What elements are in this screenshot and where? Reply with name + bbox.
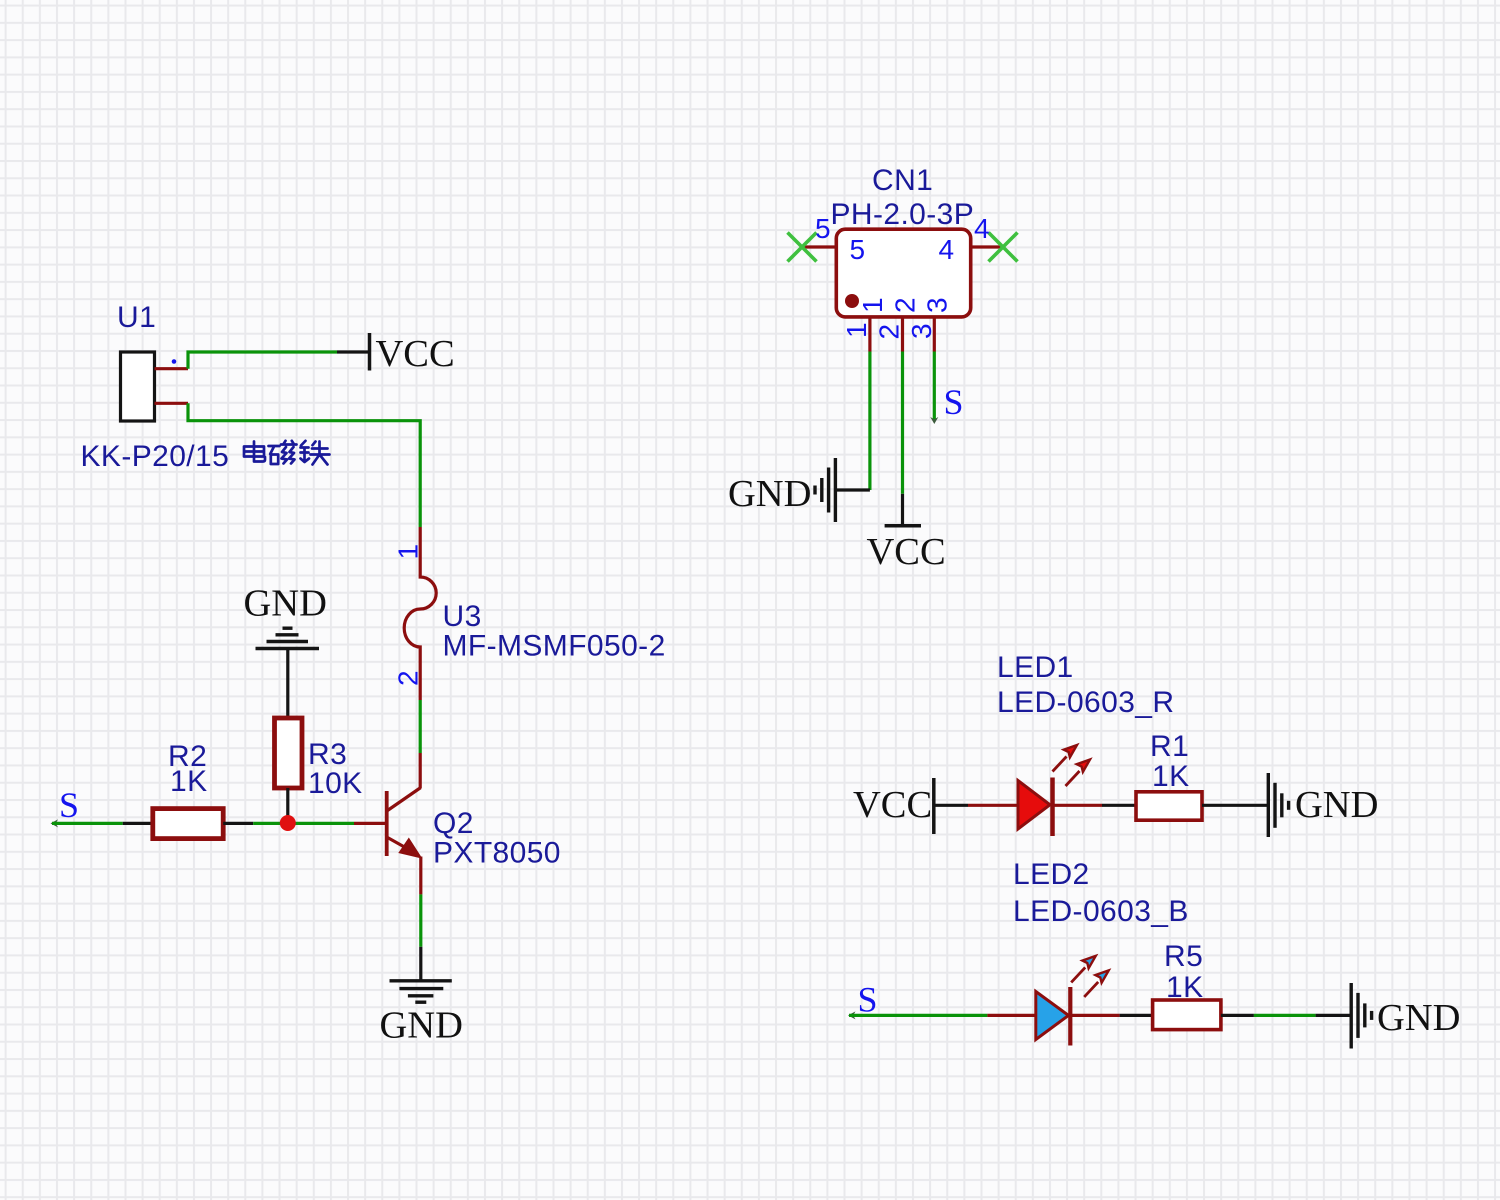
svg-text:LED2: LED2 [1013,858,1090,891]
net port S (left) [51,785,80,827]
CN1 pin 3 [933,317,936,352]
LED1 cathode pin [1053,804,1103,807]
svg-text:2: 2 [393,670,424,686]
wire fuse to collector [419,700,422,753]
wire R2 to junction to Q2 [253,822,354,825]
wire mid green [1254,1014,1316,1017]
wire CN1 pin2 to VCC [901,352,904,494]
wire S to LED2 [849,1014,987,1017]
wire CN1 pin3 to S [933,352,936,420]
Q2 emitter pin [419,857,422,895]
wire S to R2 [52,822,123,825]
svg-text:MF-MSMF050-2: MF-MSMF050-2 [443,630,666,663]
svg-text:Q2: Q2 [433,807,474,840]
U1 pin 1 [155,367,189,370]
svg-text:2: 2 [890,297,921,313]
svg-text:4: 4 [974,213,990,244]
svg-text:GND: GND [1295,784,1378,826]
LED1 labels [997,651,1174,719]
svg-text:1K: 1K [1166,971,1204,1004]
ground GND (above R3) [244,583,327,649]
svg-text:1K: 1K [1152,760,1190,793]
svg-text:S: S [944,382,964,422]
junction node dot [280,815,296,831]
wire VCC to LED1 [934,804,968,807]
no-connect X right [989,233,1018,262]
svg-text:VCC: VCC [867,531,946,573]
transistor Q2 PXT8050 [387,788,561,870]
CN1 pin 4 [971,245,1003,248]
svg-text:1: 1 [393,544,424,560]
fuse U3 MF-MSMF050-2 [404,527,665,700]
net port S (LED2) [848,980,878,1020]
svg-text:U3: U3 [443,600,482,633]
wire R5 to GND [1221,1014,1254,1017]
svg-text:5: 5 [850,234,866,265]
svg-text:R5: R5 [1164,940,1203,973]
svg-text:2: 2 [874,324,905,340]
ground GND (below Q2) [380,981,463,1047]
wire U1 pin2 to fuse U3 [188,403,420,527]
wire to GND5 [1316,1014,1351,1017]
svg-text:5: 5 [815,213,831,244]
电 [244,442,265,462]
U1 pin 1 dot [172,359,177,364]
power flag VCC (top left) [337,333,455,375]
磁 [269,441,297,464]
LED2 labels [1013,858,1189,928]
LED2 anode pin [987,1014,1035,1017]
CN1 pin 2 [901,317,904,352]
wire GND to R3 [286,649,289,719]
CN1 pin 1 [868,317,871,352]
LED1 anode pin [968,804,1018,807]
LED1 LED-0603_R [1018,745,1090,836]
LED2 LED-0603_B [1036,956,1109,1046]
svg-text:S: S [59,785,79,825]
svg-text:1: 1 [841,322,872,338]
svg-text:GND: GND [380,1005,463,1047]
svg-text:4: 4 [939,234,955,265]
svg-text:R1: R1 [1150,730,1189,763]
wire U1 pin1 to VCC [188,352,337,369]
ground GND (CN1) [728,458,870,522]
svg-text:GND: GND [728,473,811,515]
svg-text:PXT8050: PXT8050 [433,837,561,870]
CN1 pin-1 dot [845,294,859,308]
net port S (CN1) [930,382,963,424]
铁 [301,441,330,465]
resistor R3 10K [275,718,363,800]
svg-text:KK-P20/15: KK-P20/15 [81,440,230,473]
svg-text:10K: 10K [308,767,363,800]
svg-text:1: 1 [857,297,888,313]
R3 pin 2 [286,788,289,823]
CN1 pin 5 [801,245,836,248]
svg-text:3: 3 [906,323,937,339]
connector CN1 PH-2.0-3P [831,164,975,317]
GND stub [419,947,422,981]
wire LED2 to R5 [1120,1014,1153,1017]
U1 pin 2 [155,402,189,405]
svg-text:3: 3 [922,297,953,313]
svg-text:VCC: VCC [376,333,455,375]
svg-text:LED1: LED1 [997,651,1074,684]
Q2 collector pin [419,753,422,788]
svg-text:GND: GND [1377,997,1460,1039]
svg-text:U1: U1 [117,301,156,334]
power flag VCC (LED1) [853,778,934,834]
LED2 cathode pin [1071,1014,1119,1017]
svg-text:VCC: VCC [853,784,932,826]
resistor R2 1K [153,740,223,839]
no-connect X left [788,233,817,262]
wire CN1 pin1 to GND [868,352,871,491]
U1 value label KK-P20/15 电磁铁 [81,440,330,473]
Q2 base pin [354,822,387,825]
wire LED1 to R1 [1102,804,1136,807]
svg-text:1K: 1K [170,765,208,798]
svg-text:LED-0603_R: LED-0603_R [997,686,1174,719]
R2 pin 1 [123,822,153,825]
resistor R5 1K [1153,940,1221,1030]
electromagnet U1 [117,301,156,421]
svg-text:S: S [858,980,878,1020]
wire emitter to GND [419,894,422,946]
svg-text:CN1: CN1 [872,164,933,197]
R2 pin 2 [223,822,253,825]
ground GND (LED2) [1351,983,1460,1049]
svg-text:GND: GND [244,583,327,625]
svg-text:LED-0603_B: LED-0603_B [1013,895,1189,928]
wire R1 to GND [1202,804,1268,807]
ground GND (LED1) [1268,773,1378,837]
power flag VCC (below CN1) [867,494,946,573]
resistor R1 1K [1136,730,1202,820]
svg-text:PH-2.0-3P: PH-2.0-3P [831,198,975,231]
